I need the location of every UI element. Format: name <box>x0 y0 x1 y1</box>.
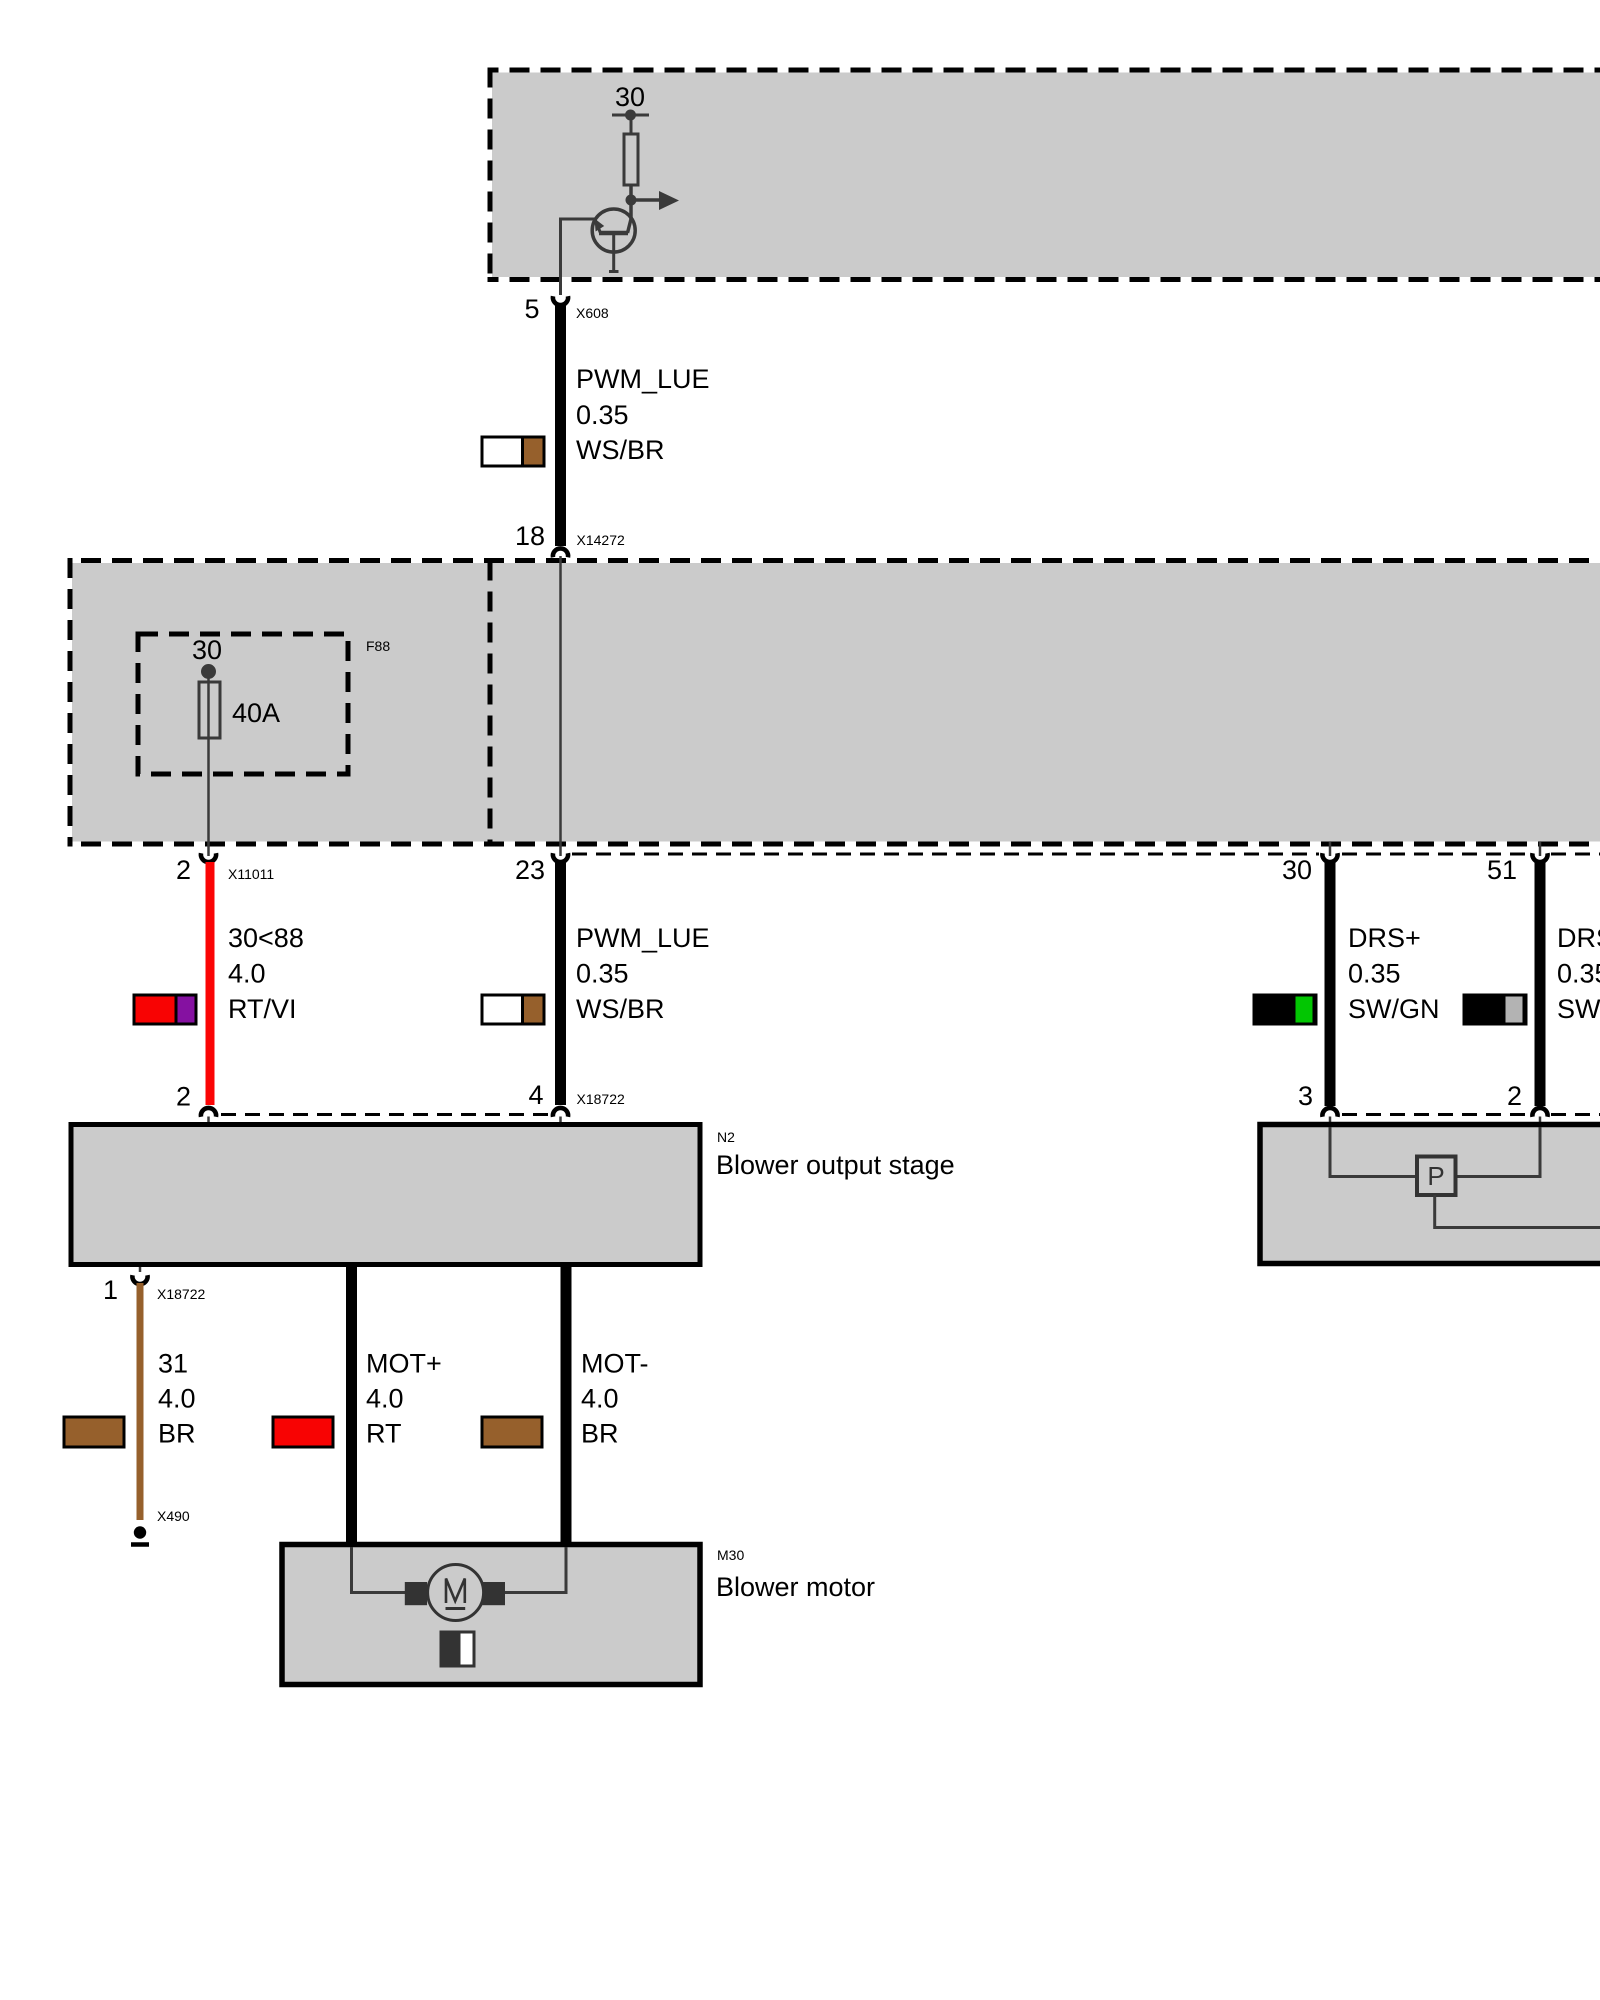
svg-text:51: 51 <box>1487 855 1517 885</box>
svg-text:2: 2 <box>1507 1081 1522 1111</box>
wire through junction box (PWM_LUE) <box>559 556 562 856</box>
node 30 dot <box>201 664 216 679</box>
svg-text:RT: RT <box>366 1419 402 1449</box>
module divider line <box>488 561 493 845</box>
wire 30<88 RT/VI <box>206 862 215 1105</box>
colour code WS/BR (upper) <box>482 437 544 466</box>
svg-text:31: 31 <box>158 1349 188 1379</box>
svg-text:RT/VI: RT/VI <box>228 994 297 1024</box>
pin 51 socket <box>1532 853 1547 862</box>
colour code RT/VI <box>134 995 196 1024</box>
svg-text:PWM_LUE: PWM_LUE <box>576 923 710 953</box>
svg-text:X14272: X14272 <box>577 532 625 548</box>
pin 2 socket X11011 <box>201 853 216 862</box>
connector rail above N2 (thin dashed) <box>221 1113 549 1116</box>
wire DRS+ <box>1325 862 1336 1106</box>
svg-text:SW/GY: SW/GY <box>1557 994 1600 1024</box>
svg-text:N2: N2 <box>717 1129 735 1145</box>
wire label 30<88 <box>228 923 304 1024</box>
svg-text:3: 3 <box>1298 1081 1313 1111</box>
wire label 31 BR <box>158 1349 196 1449</box>
svg-text:18: 18 <box>515 521 545 551</box>
svg-text:5: 5 <box>524 294 539 324</box>
junction node <box>626 195 637 206</box>
svg-text:4.0: 4.0 <box>581 1384 619 1414</box>
svg-text:30: 30 <box>615 82 645 112</box>
svg-text:X11011: X11011 <box>228 866 274 882</box>
transistor Q1 <box>592 209 635 272</box>
svg-text:P: P <box>1427 1161 1444 1191</box>
pin stub pin 3 <box>1329 1117 1332 1136</box>
pin 30 socket <box>1322 853 1337 862</box>
resistor R (pull-up) <box>624 134 638 185</box>
module M30 blower motor <box>282 1545 700 1685</box>
pin stub pin 30 <box>1329 842 1332 856</box>
fuse F88 40A <box>199 682 220 738</box>
wire label MOT- <box>581 1349 649 1449</box>
svg-text:X18722: X18722 <box>577 1091 625 1107</box>
motor M30 symbol <box>405 1565 505 1621</box>
pressure sensor P symbol <box>1417 1157 1456 1196</box>
wire MOT+ <box>346 1265 357 1548</box>
module pressure sensor box <box>1260 1125 1600 1264</box>
svg-text:0.35: 0.35 <box>1348 959 1401 989</box>
svg-text:BR: BR <box>581 1419 619 1449</box>
colour code WS/BR (lower) <box>482 995 544 1024</box>
wire fuse feed <box>207 671 210 856</box>
svg-text:F88: F88 <box>366 638 390 654</box>
sensor internal wire right <box>1456 1127 1541 1177</box>
pin 18 socket X14272 <box>553 548 568 557</box>
ground point X490 <box>131 1526 149 1544</box>
motor internal wire right <box>505 1547 566 1593</box>
svg-text:X490: X490 <box>157 1508 190 1524</box>
wire rail to resistor <box>630 115 633 134</box>
fuse box F88 (dashed) <box>138 634 348 774</box>
svg-text:MOT-: MOT- <box>581 1349 649 1379</box>
svg-text:0.35: 0.35 <box>576 400 629 430</box>
pin stub pin 1 <box>139 1267 142 1272</box>
wire DRS- <box>1535 862 1546 1106</box>
wire transistor base lead <box>561 218 596 296</box>
svg-text:WS/BR: WS/BR <box>576 435 665 465</box>
svg-text:0.35: 0.35 <box>576 959 629 989</box>
colour code SW/GY <box>1464 995 1526 1024</box>
svg-text:30: 30 <box>192 635 222 665</box>
colour code RT <box>273 1417 333 1447</box>
colour code SW/GN <box>1254 995 1316 1024</box>
svg-text:4.0: 4.0 <box>228 959 266 989</box>
colour code BR (ground wire) <box>64 1417 124 1447</box>
svg-text:MOT+: MOT+ <box>366 1349 442 1379</box>
module N2 blower output stage <box>71 1125 700 1265</box>
pin stub pin 2 sensor <box>1539 1117 1542 1136</box>
wire PWM_LUE (upper) <box>555 303 566 546</box>
motor colour code SW/WS <box>441 1632 474 1666</box>
svg-text:23: 23 <box>515 855 545 885</box>
svg-text:Blower output stage: Blower output stage <box>716 1150 955 1180</box>
wire label DRS+ <box>1348 923 1440 1024</box>
pin stub pin 51 <box>1539 842 1542 856</box>
svg-text:X18722: X18722 <box>157 1286 205 1302</box>
svg-text:40A: 40A <box>232 698 280 728</box>
svg-text:4.0: 4.0 <box>158 1384 196 1414</box>
svg-text:X608: X608 <box>576 305 609 321</box>
svg-text:SW/GN: SW/GN <box>1348 994 1440 1024</box>
wire resistor to junction <box>629 185 633 219</box>
sensor output wire <box>1435 1195 1600 1228</box>
svg-text:2: 2 <box>176 1082 191 1112</box>
pin stub pin4 into N2 <box>559 1117 562 1124</box>
svg-text:30<88: 30<88 <box>228 923 304 953</box>
pin 23 socket <box>553 853 568 862</box>
svg-text:PWM_LUE: PWM_LUE <box>576 364 710 394</box>
pin 5 socket X608 <box>553 296 568 305</box>
wire label DRS- <box>1557 923 1600 1024</box>
wire label PWM_LUE lower <box>576 923 710 1024</box>
colour code BR (MOT-) <box>482 1417 542 1447</box>
signal arrow out <box>631 191 679 210</box>
svg-text:M30: M30 <box>717 1547 744 1563</box>
connector rail above pressure sensor (thin dashed) <box>1342 1113 1600 1116</box>
svg-text:DRS-: DRS- <box>1557 923 1600 953</box>
svg-text:4.0: 4.0 <box>366 1384 404 1414</box>
harness connector rail (thin dashed) <box>572 853 1600 856</box>
wire label PWM_LUE upper <box>576 364 710 465</box>
pin 2 socket (N2) <box>201 1108 216 1117</box>
svg-text:DRS+: DRS+ <box>1348 923 1421 953</box>
sensor internal wire left <box>1330 1127 1417 1177</box>
wire 31 BR (ground) <box>137 1283 144 1520</box>
node 30 terminal label <box>615 82 645 112</box>
module box (top control unit, dashed) <box>488 68 1600 283</box>
svg-text:2: 2 <box>176 855 191 885</box>
svg-text:WS/BR: WS/BR <box>576 994 665 1024</box>
pin 2 socket (pressure sensor) <box>1532 1108 1547 1117</box>
pin stub into N2 <box>207 1117 210 1124</box>
wire PWM_LUE (lower) <box>555 862 566 1105</box>
wire MOT- <box>561 1265 572 1548</box>
node 30 rail <box>612 110 649 121</box>
module box (power distribution + junction box, dashed) <box>68 558 1600 847</box>
svg-text:BR: BR <box>158 1419 196 1449</box>
pin 3 socket <box>1322 1108 1337 1117</box>
svg-text:30: 30 <box>1282 855 1312 885</box>
pin 4 socket X18722 <box>553 1108 568 1117</box>
svg-text:Blower motor: Blower motor <box>716 1572 875 1602</box>
pin 1 socket X18722 <box>132 1275 147 1284</box>
svg-text:0.35: 0.35 <box>1557 959 1600 989</box>
svg-text:1: 1 <box>103 1275 118 1305</box>
wire label MOT+ <box>366 1349 442 1449</box>
motor internal wire left <box>352 1547 407 1593</box>
svg-text:4: 4 <box>528 1080 543 1110</box>
